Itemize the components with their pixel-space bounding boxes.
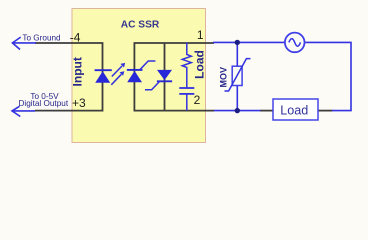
svg-text:-4: -4 <box>70 31 81 45</box>
svg-text:To Ground: To Ground <box>22 33 61 42</box>
svg-text:Digital Output: Digital Output <box>18 99 68 108</box>
svg-text:MOV: MOV <box>219 67 229 88</box>
svg-text:Load: Load <box>193 50 207 79</box>
svg-text:AC SSR: AC SSR <box>121 20 160 31</box>
svg-text:1: 1 <box>197 28 204 42</box>
svg-text:+3: +3 <box>72 96 86 110</box>
svg-text:Input: Input <box>71 57 85 86</box>
svg-text:Load: Load <box>280 103 308 117</box>
svg-text:2: 2 <box>194 93 201 107</box>
